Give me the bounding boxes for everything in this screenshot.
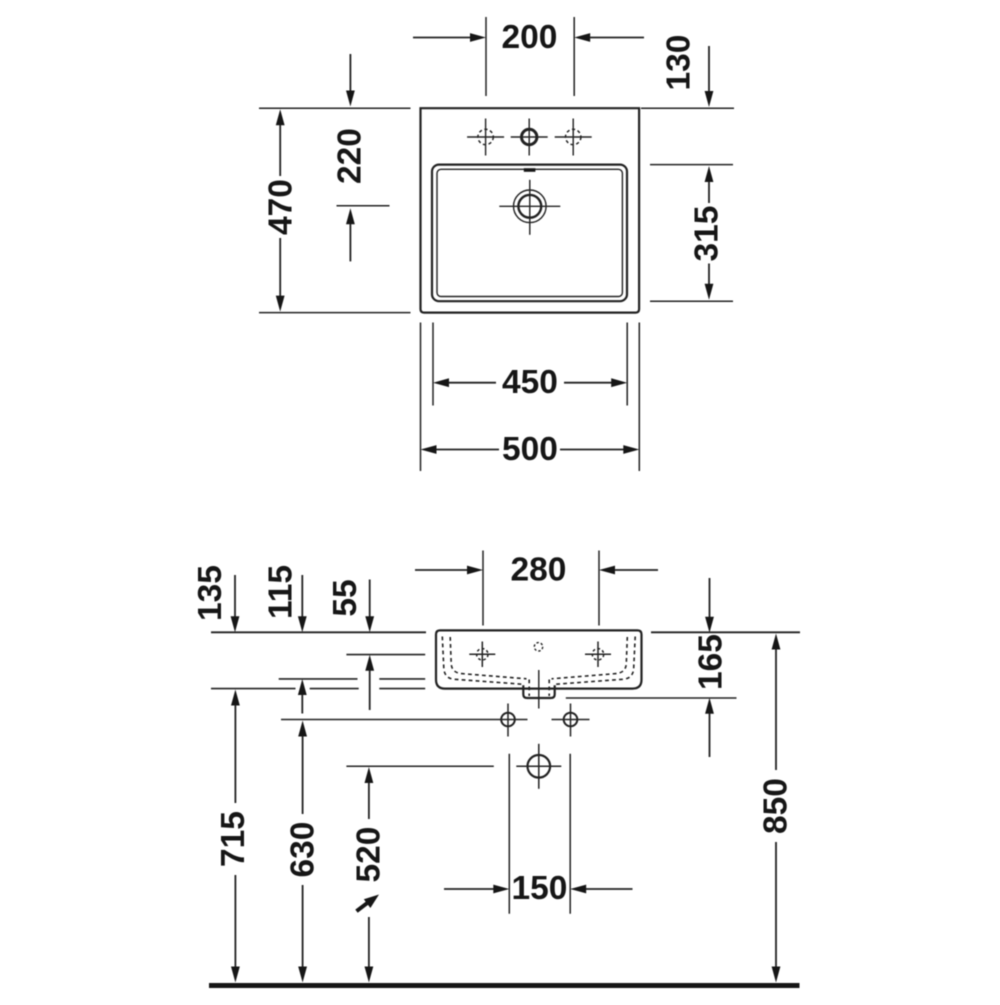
svg-text:450: 450	[502, 364, 558, 401]
svg-text:115: 115	[263, 565, 300, 619]
svg-text:55: 55	[327, 579, 364, 616]
svg-text:135: 135	[192, 565, 229, 621]
svg-text:150: 150	[512, 870, 568, 907]
svg-text:165: 165	[693, 634, 730, 690]
svg-text:630: 630	[285, 822, 322, 878]
svg-text:520: 520	[351, 827, 388, 883]
svg-text:130: 130	[661, 35, 698, 91]
svg-text:500: 500	[502, 431, 558, 468]
svg-text:715: 715	[215, 811, 252, 867]
svg-text:315: 315	[689, 206, 726, 262]
svg-text:200: 200	[502, 19, 558, 56]
svg-text:220: 220	[332, 128, 369, 184]
svg-text:470: 470	[263, 179, 300, 235]
svg-text:280: 280	[511, 552, 567, 589]
svg-text:850: 850	[758, 778, 795, 834]
